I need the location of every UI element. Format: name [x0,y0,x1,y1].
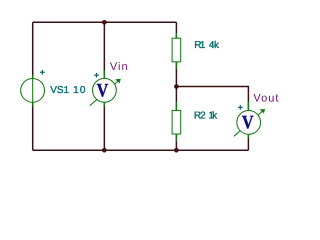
svg-text:4k: 4k [209,40,220,51]
VM2 circle body [237,111,261,135]
wire left rail [32,22,34,150]
resistor R1 [172,33,181,69]
VM1 + polarity mark [94,74,99,76]
svg-text:R2: R2 [194,110,206,121]
VM2 V glyph [242,116,253,129]
VM1 arrow shaft [90,80,119,106]
VM2 bottom lead [247,133,249,139]
VS1 + polarity mark [40,71,45,73]
junction top (node Vin) [102,20,107,25]
VM2 + polarity mark [238,106,243,108]
junction bottom-left [102,148,107,153]
wire R1-R2 branch [175,22,177,150]
junction mid (node Vout) [174,84,179,89]
svg-text:10: 10 [73,85,87,96]
R2 top lead [175,102,177,111]
VS1 lead (vertical through body) [32,75,34,108]
R1 bottom lead [175,62,177,69]
VS1 circle body [21,79,45,103]
VM2 arrowhead [260,109,265,113]
svg-text:Vin: Vin [110,61,129,73]
R1 body [172,38,181,62]
resistor R2 [172,102,181,142]
wire Vin meter branch [103,22,105,150]
voltage source VS1 [21,70,45,107]
junction bottom-mid [174,148,179,153]
svg-text:Vout: Vout [253,92,279,104]
voltmeter VM2 (Vout) [234,102,265,139]
VM2 top lead [247,102,249,112]
voltmeter VM1 (Vin) [90,70,121,107]
VM2 arrow shaft [234,110,264,136]
VM1 V glyph [97,84,108,97]
svg-text:VS1: VS1 [50,85,69,96]
VM1 top lead [103,70,105,80]
VM1 arrowhead [116,79,121,83]
wire mid rail to Vout [176,86,248,150]
R2 body [172,111,181,135]
VM1 circle body [93,78,117,102]
wire bottom rail [33,149,249,151]
VM1 bottom lead [103,101,105,107]
R1 top lead [175,33,177,38]
R2 bottom lead [175,134,177,142]
wire top rail [33,21,177,23]
